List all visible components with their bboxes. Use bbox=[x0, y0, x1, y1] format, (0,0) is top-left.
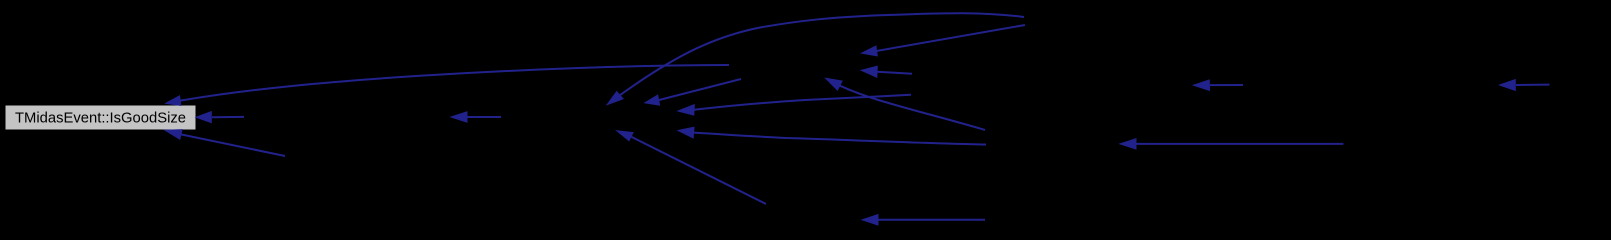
arrowhead EB bbox=[861, 66, 877, 77]
arrowhead M2 bbox=[196, 112, 211, 123]
edge E4 diagonal into cluster bbox=[659, 79, 741, 100]
edge H2 short horizontal arrow mid-left bbox=[466, 116, 501, 118]
arrowhead E4 bbox=[645, 95, 660, 105]
arrowhead EC bbox=[826, 78, 843, 90]
arrowhead B1 bbox=[862, 215, 878, 225]
edge E2 big top spline bbox=[620, 13, 1024, 95]
edge EF long shallow curve bbox=[694, 133, 986, 145]
edge R3 long horizontal arrow middle right bbox=[1135, 143, 1343, 145]
edge ED shallow curve into cluster bbox=[694, 95, 911, 110]
edge EG steep diagonal from lower right bbox=[631, 137, 766, 204]
edge M1 long curve into node top bbox=[180, 65, 729, 101]
arrowhead M3 bbox=[165, 130, 182, 140]
arrowhead EF bbox=[678, 127, 694, 138]
edge EB short horizontal right-middle bbox=[877, 72, 912, 74]
svg-text:TMidasEvent::IsGoodSize: TMidasEvent::IsGoodSize bbox=[15, 111, 186, 127]
edge R2 horizontal arrow far right bbox=[1516, 84, 1550, 86]
arrowhead E3 bbox=[862, 46, 878, 56]
arrowhead R3 bbox=[1120, 139, 1136, 149]
edge R1 horizontal arrow right area bbox=[1210, 84, 1243, 86]
edge B1 horizontal arrow bottom bbox=[877, 219, 985, 221]
arrowhead R2 bbox=[1500, 80, 1516, 91]
edge M2 short horizontal into node right bbox=[212, 116, 244, 118]
arrowhead R1 bbox=[1194, 80, 1210, 91]
edge M3 diagonal into node bottom bbox=[181, 134, 285, 156]
edge E3 straight diagonal top right bbox=[876, 25, 1025, 51]
edge EC diagonal up-left bbox=[840, 86, 985, 130]
arrowhead EG bbox=[617, 131, 633, 141]
arrowhead H2 bbox=[451, 112, 467, 122]
arrowhead ED bbox=[678, 105, 694, 116]
arrowhead E2 bbox=[607, 92, 623, 105]
arrowhead M1 bbox=[166, 96, 181, 106]
node TMidasEvent::IsGoodSize bbox=[5, 105, 196, 130]
